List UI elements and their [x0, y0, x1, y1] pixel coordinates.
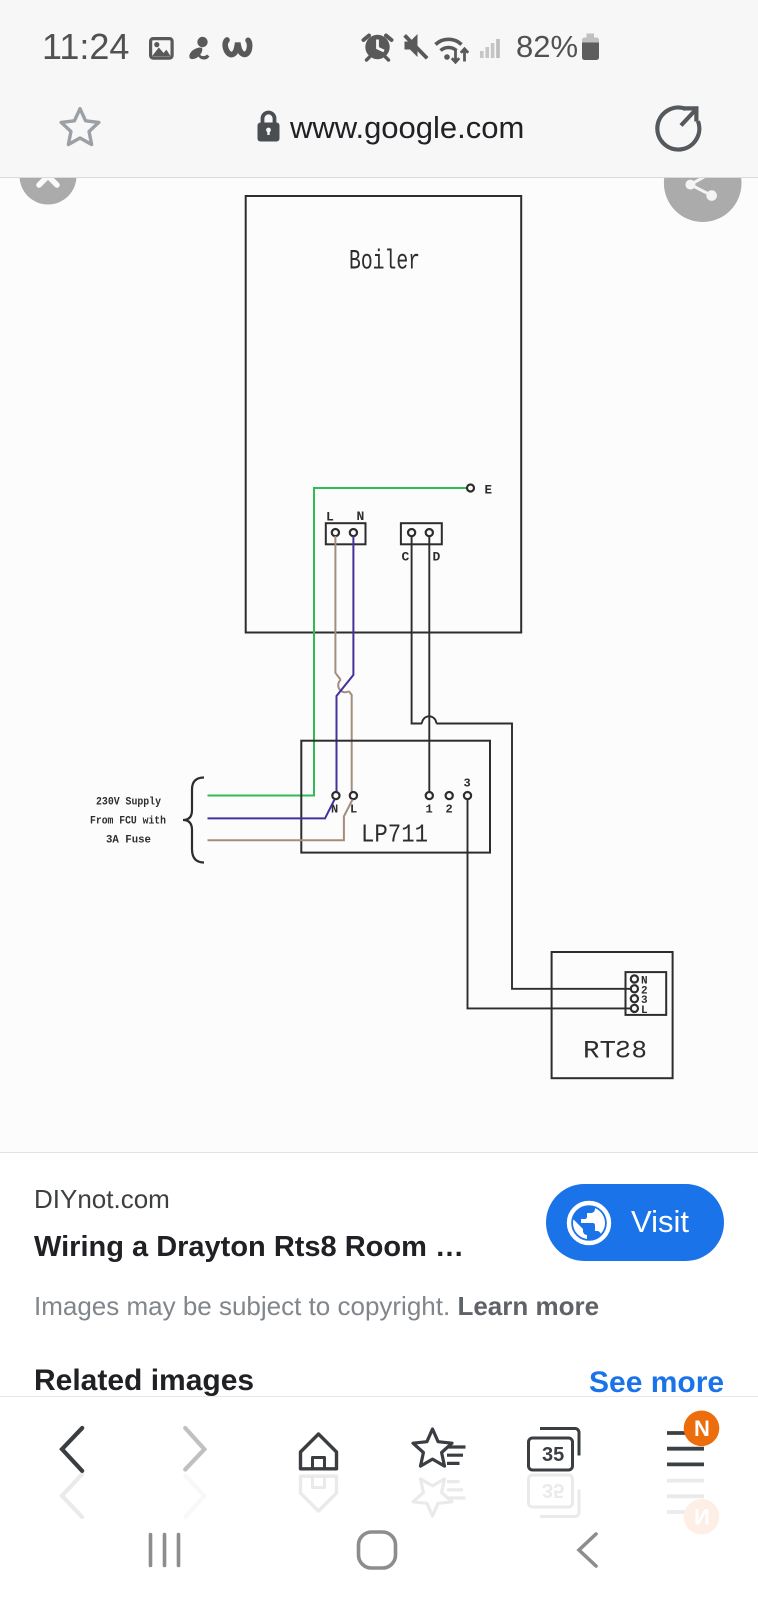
svg-text:N: N — [357, 509, 365, 524]
recents key — [151, 1535, 179, 1566]
wish app icon (w) — [225, 40, 249, 55]
share button — [664, 144, 742, 222]
svg-text:3: 3 — [464, 777, 471, 791]
image viewer with wiring diagram — [0, 178, 758, 1153]
svg-text:L: L — [350, 803, 357, 817]
bottom toolbar + system nav — [0, 1397, 758, 1600]
terminal L (LP711) — [350, 792, 357, 799]
svg-text:S: S — [616, 1037, 631, 1066]
RTS8 box — [552, 952, 673, 1078]
close button — [20, 148, 77, 205]
wire: brown live boiler-L to LP711-L with hop over neutral — [335, 536, 351, 792]
terminal D (boiler) — [426, 529, 433, 536]
back button — [62, 1428, 82, 1471]
wire: purple neutral boiler-N to LP711-N — [337, 536, 354, 792]
bookmarks star button — [413, 1429, 466, 1466]
signal bars — [480, 39, 500, 58]
terminal C (boiler) — [408, 529, 415, 536]
gallery notification icon — [151, 39, 173, 59]
mute icon — [403, 34, 428, 60]
terminal L (boiler) — [332, 529, 339, 536]
svg-text:8: 8 — [632, 1037, 648, 1066]
RTS8 terminal block — [626, 972, 667, 1015]
wire: black LP711 terminal 3 to RTS8 terminal L — [468, 799, 631, 1008]
boiler C/D terminal block — [401, 523, 442, 544]
wire: black D to LP711 terminal 1 — [428, 536, 430, 792]
svg-text:1: 1 — [426, 803, 433, 817]
svg-text:From FCU with: From FCU with — [90, 816, 166, 828]
forward button — [185, 1428, 204, 1470]
svg-text:2: 2 — [446, 803, 453, 817]
svg-text:L: L — [326, 510, 334, 525]
boiler L/N terminal block — [326, 523, 366, 544]
bookmark star — [61, 109, 99, 145]
terminal 2 (LP711) — [446, 792, 453, 799]
reload icon — [657, 108, 699, 150]
terminal 3 (LP711) — [464, 792, 471, 799]
svg-text:D: D — [433, 550, 441, 565]
top status + url bars — [0, 0, 758, 178]
svg-text:RT: RT — [583, 1037, 616, 1066]
svg-text:L: L — [641, 1005, 648, 1017]
svg-text:Boiler: Boiler — [349, 247, 420, 278]
wire: black C to RTS8 terminal 2 with hop over D wire — [412, 536, 631, 989]
home key — [359, 1532, 396, 1568]
svg-text:35: 35 — [542, 1444, 564, 1466]
terminal N (RTS8) — [631, 975, 638, 982]
boiler box — [246, 196, 522, 633]
svg-text:230V Supply: 230V Supply — [96, 797, 161, 809]
back key — [579, 1534, 596, 1566]
info section — [0, 1153, 758, 1396]
menu button — [667, 1433, 704, 1464]
terminal E — [467, 485, 474, 492]
hop: brown over purple — [338, 680, 349, 692]
terminal 1 (LP711) — [426, 792, 433, 799]
curly brace — [183, 778, 204, 863]
svg-text:LP711: LP711 — [361, 820, 428, 850]
wifi icon with arrows — [436, 39, 469, 62]
alarm icon — [364, 35, 392, 60]
terminal L (RTS8) — [631, 1005, 638, 1012]
terminal 2 (RTS8) — [631, 985, 638, 992]
svg-text:C: C — [402, 550, 410, 565]
battery icon — [582, 34, 599, 61]
terminal N (boiler) — [350, 529, 357, 536]
hop: black over D wire — [422, 716, 436, 723]
app notification icon (figure) — [189, 37, 209, 60]
terminal 3 (RTS8) — [631, 995, 638, 1002]
wire: purple neutral supply into LP711-N — [208, 800, 335, 819]
svg-text:E: E — [485, 484, 493, 498]
home button — [301, 1434, 337, 1469]
lock icon — [258, 113, 280, 142]
wire: brown live supply into LP711-L — [208, 800, 353, 841]
wire: green earth from supply to boiler terminal E — [208, 488, 467, 796]
terminal N (LP711) — [332, 792, 339, 799]
tabs button with count 35 — [529, 1429, 580, 1471]
LP711 box — [301, 741, 490, 853]
notification badge N — [684, 1411, 720, 1447]
svg-text:3A Fuse: 3A Fuse — [106, 835, 151, 847]
svg-text:N: N — [694, 1416, 710, 1441]
